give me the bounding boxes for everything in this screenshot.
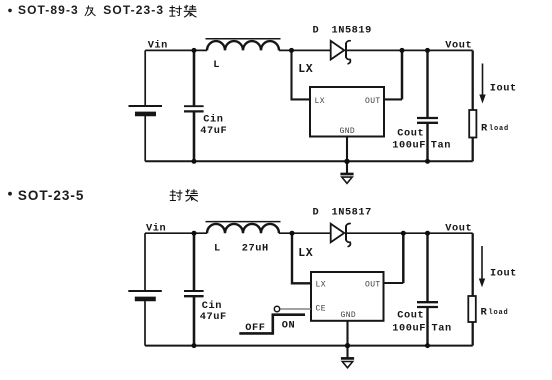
svg-text:D: D bbox=[313, 25, 320, 37]
svg-text:R: R bbox=[481, 307, 488, 319]
svg-text:100uF: 100uF bbox=[392, 140, 426, 152]
svg-text:Vin: Vin bbox=[146, 223, 166, 235]
svg-text:ON: ON bbox=[282, 320, 295, 332]
svg-text:Cout: Cout bbox=[397, 310, 424, 322]
svg-text:100uF: 100uF bbox=[392, 323, 426, 335]
svg-text:Tan: Tan bbox=[431, 140, 451, 152]
svg-text:Cin: Cin bbox=[203, 114, 223, 126]
svg-text:47uF: 47uF bbox=[200, 311, 227, 323]
svg-text:SOT-23-5: SOT-23-5 bbox=[18, 188, 85, 203]
svg-text:LX: LX bbox=[298, 63, 313, 76]
svg-text:OUT: OUT bbox=[365, 97, 381, 106]
svg-text:1N5817: 1N5817 bbox=[332, 207, 372, 219]
svg-text:Iout: Iout bbox=[490, 82, 517, 94]
svg-text:LX: LX bbox=[315, 97, 325, 106]
svg-text:LX: LX bbox=[298, 247, 313, 260]
svg-text:GND: GND bbox=[340, 127, 356, 136]
svg-text:load: load bbox=[489, 309, 509, 317]
svg-text:27uH: 27uH bbox=[242, 243, 269, 255]
svg-text:Vin: Vin bbox=[148, 40, 168, 52]
svg-text:OFF: OFF bbox=[245, 322, 265, 334]
svg-text:L: L bbox=[214, 243, 221, 255]
svg-text:CE: CE bbox=[316, 305, 326, 314]
svg-text:R: R bbox=[481, 123, 488, 135]
svg-text:load: load bbox=[489, 125, 509, 133]
svg-text:1N5819: 1N5819 bbox=[332, 25, 372, 37]
svg-text:D: D bbox=[313, 207, 320, 219]
svg-text:47uF: 47uF bbox=[200, 125, 227, 137]
svg-text:GND: GND bbox=[341, 311, 357, 320]
svg-text:Cout: Cout bbox=[397, 128, 424, 140]
svg-text:Vout: Vout bbox=[445, 223, 472, 235]
svg-text:LX: LX bbox=[316, 281, 326, 290]
svg-text:Iout: Iout bbox=[490, 267, 517, 279]
svg-text:OUT: OUT bbox=[365, 281, 381, 290]
svg-text:SOT-89-3: SOT-89-3 bbox=[18, 3, 79, 17]
svg-text:SOT-23-3: SOT-23-3 bbox=[103, 3, 164, 17]
svg-text:L: L bbox=[213, 59, 220, 71]
svg-text:Vout: Vout bbox=[445, 40, 472, 52]
svg-text:Tan: Tan bbox=[432, 323, 452, 335]
